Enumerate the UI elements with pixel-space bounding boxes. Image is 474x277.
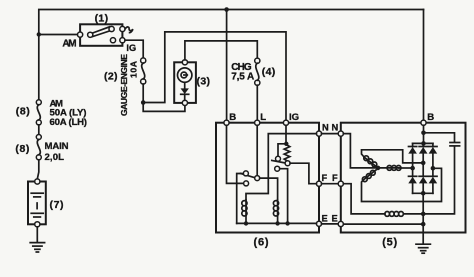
svg-text:AM: AM <box>62 38 76 49</box>
svg-text:(7): (7) <box>50 199 64 211</box>
svg-text:7,5 A: 7,5 A <box>231 72 254 83</box>
svg-text:(8): (8) <box>16 106 30 118</box>
node: phase 2 tap (left column) <box>410 166 415 171</box>
ignition switch (1) <box>78 24 133 46</box>
wire: AM feed to ignition switch <box>39 34 78 36</box>
node: IG resistor junction <box>284 142 288 146</box>
resistor (field resistor) <box>284 145 290 161</box>
node: B to diode bus <box>421 141 426 146</box>
node: contact ground on ground bus <box>285 221 289 225</box>
node: AM feed junction <box>37 32 41 36</box>
wire: junction to upper fixed contact <box>278 144 286 157</box>
svg-text:10A: 10A <box>129 61 139 78</box>
node: IG supply junction under fuse 2 <box>141 100 146 105</box>
wire: B internal to lamp relay contact <box>227 125 244 183</box>
ground (battery) <box>30 243 44 252</box>
svg-text:(8): (8) <box>15 143 29 155</box>
node: B to capacitor branch <box>421 131 426 136</box>
node: E line junction <box>421 222 426 227</box>
svg-text:B: B <box>229 112 236 123</box>
svg-text:L: L <box>260 112 266 123</box>
wire: phase 2 to rectifier left column <box>399 167 410 169</box>
wire: lamp top to CHG fuse <box>185 41 257 60</box>
relay contact set (lamp relay) <box>237 171 260 224</box>
svg-text:GAUGE-ENGINE: GAUGE-ENGINE <box>119 54 129 116</box>
wire: junction to charge lamp bottom <box>143 103 185 112</box>
node: field and capacitor return <box>421 212 426 217</box>
wire: N link between boxes <box>322 133 339 135</box>
svg-text:F: F <box>322 173 328 183</box>
wire: ground line down <box>422 193 424 243</box>
wire: F link between boxes <box>322 183 339 185</box>
wire: pivot to F terminal <box>290 163 316 184</box>
svg-text:(6): (6) <box>254 237 269 249</box>
wire: top bus down to regulator B terminal <box>226 10 228 121</box>
node: phase 3 tap (right column) <box>431 166 436 171</box>
field coil (rotor) <box>343 184 421 217</box>
svg-text:E: E <box>322 214 328 224</box>
fusible link (8) AM 50A/60A <box>36 100 41 125</box>
wire: between fusible links <box>38 125 40 135</box>
wire: top bus down to alternator B terminal <box>423 10 425 121</box>
svg-text:B: B <box>427 112 434 123</box>
svg-text:(4): (4) <box>262 66 276 78</box>
terminal E (regulator) <box>316 221 321 226</box>
fusible link (8) MAIN 2.0L <box>36 135 41 160</box>
wire: fuse 2 to junction <box>142 84 144 103</box>
wire: junction to regulator IG terminal <box>143 32 286 120</box>
ground (alternator) <box>416 244 430 253</box>
diode D2 (top middle) <box>419 143 428 163</box>
node: top bus to regulator B <box>224 7 229 12</box>
wire: E internal <box>343 223 421 225</box>
relay coil (right winding) <box>273 200 278 224</box>
diode D3 (top right) <box>429 143 438 168</box>
node: left coil on ground bus <box>244 221 248 225</box>
terminal L (regulator) <box>255 120 260 125</box>
terminal N (alternator) <box>338 131 343 136</box>
node: right coil on ground bus <box>275 221 279 225</box>
wire: lower fixed contact to ground bus <box>280 169 288 224</box>
wire: E ground bus <box>237 222 317 224</box>
wire: link to battery <box>37 160 39 179</box>
wire: N internal to stator neutral <box>343 134 375 168</box>
svg-text:N: N <box>322 123 329 133</box>
wire: CHG fuse to regulator L terminal <box>256 85 258 120</box>
fuse (4) CHG 7,5A <box>255 58 260 85</box>
terminal F (alternator) <box>338 181 343 186</box>
svg-text:(5): (5) <box>382 237 397 249</box>
terminal IG (regulator) <box>283 120 288 125</box>
battery (7) <box>28 179 46 227</box>
svg-text:N: N <box>332 123 339 133</box>
relay coil (left, voltage winding) <box>242 200 247 224</box>
svg-text:2,0L: 2,0L <box>45 152 65 163</box>
wire: main B+ top bus and left drop <box>39 10 424 100</box>
node: stator neutral point <box>376 166 381 171</box>
svg-text:(3): (3) <box>197 76 211 88</box>
stator winding phase 3 (lower left) <box>362 170 376 182</box>
regulator contact set (field regulation) <box>272 156 290 171</box>
voltage regulator (6) box <box>216 123 319 233</box>
diode D1 (top left) <box>408 143 417 168</box>
wire: L internal to lamp relay pivot <box>256 125 258 175</box>
alternator (5) box <box>341 123 466 233</box>
terminal B (regulator) <box>224 120 229 125</box>
svg-text:MAIN: MAIN <box>45 141 69 152</box>
svg-text:(1): (1) <box>95 13 109 25</box>
wire: E link between boxes <box>322 223 339 225</box>
svg-text:60A (LH): 60A (LH) <box>50 117 88 128</box>
stator winding phase 1 (upper left) <box>364 156 378 168</box>
terminal F (regulator) <box>316 181 321 186</box>
wire: phase 1 to rectifier middle column <box>362 150 421 163</box>
diode D5 (bottom middle) <box>419 163 428 193</box>
diode D4 (bottom left) <box>408 168 417 193</box>
node: negative bus to ground line <box>421 191 426 196</box>
capacitor C1 <box>424 133 460 214</box>
wire: IG internal to resistor <box>285 125 287 144</box>
diode D6 (bottom right) <box>429 168 438 193</box>
wire: rectifier positive bus <box>413 142 433 144</box>
stator winding phase 2 (right) <box>381 166 402 171</box>
svg-text:(2): (2) <box>104 71 118 83</box>
wire: upper contact to ground bus handled above; wire: pivot to voltage coil <box>260 178 278 200</box>
wire: rectifier negative bus <box>413 192 433 194</box>
wire: phase 3 to rectifier right column <box>362 168 442 201</box>
node: phase 1 tap (middle column) <box>421 161 426 166</box>
svg-text:IG: IG <box>126 43 136 53</box>
svg-text:IG: IG <box>289 112 299 123</box>
fuse (2) GAUGE-ENGINE 10A <box>141 58 146 84</box>
terminal E (alternator) <box>338 221 343 226</box>
terminal B (alternator) <box>421 120 426 125</box>
wire: switch IG output to fuse 2 <box>125 40 143 58</box>
terminal N (regulator) <box>316 131 321 136</box>
svg-text:F: F <box>332 173 338 183</box>
charge lamp (3) <box>174 60 196 106</box>
wire: B internal drop <box>423 125 425 143</box>
wire: battery to ground <box>36 227 38 242</box>
wire: N internal to relay coil <box>246 134 316 200</box>
svg-text:E: E <box>332 214 338 224</box>
